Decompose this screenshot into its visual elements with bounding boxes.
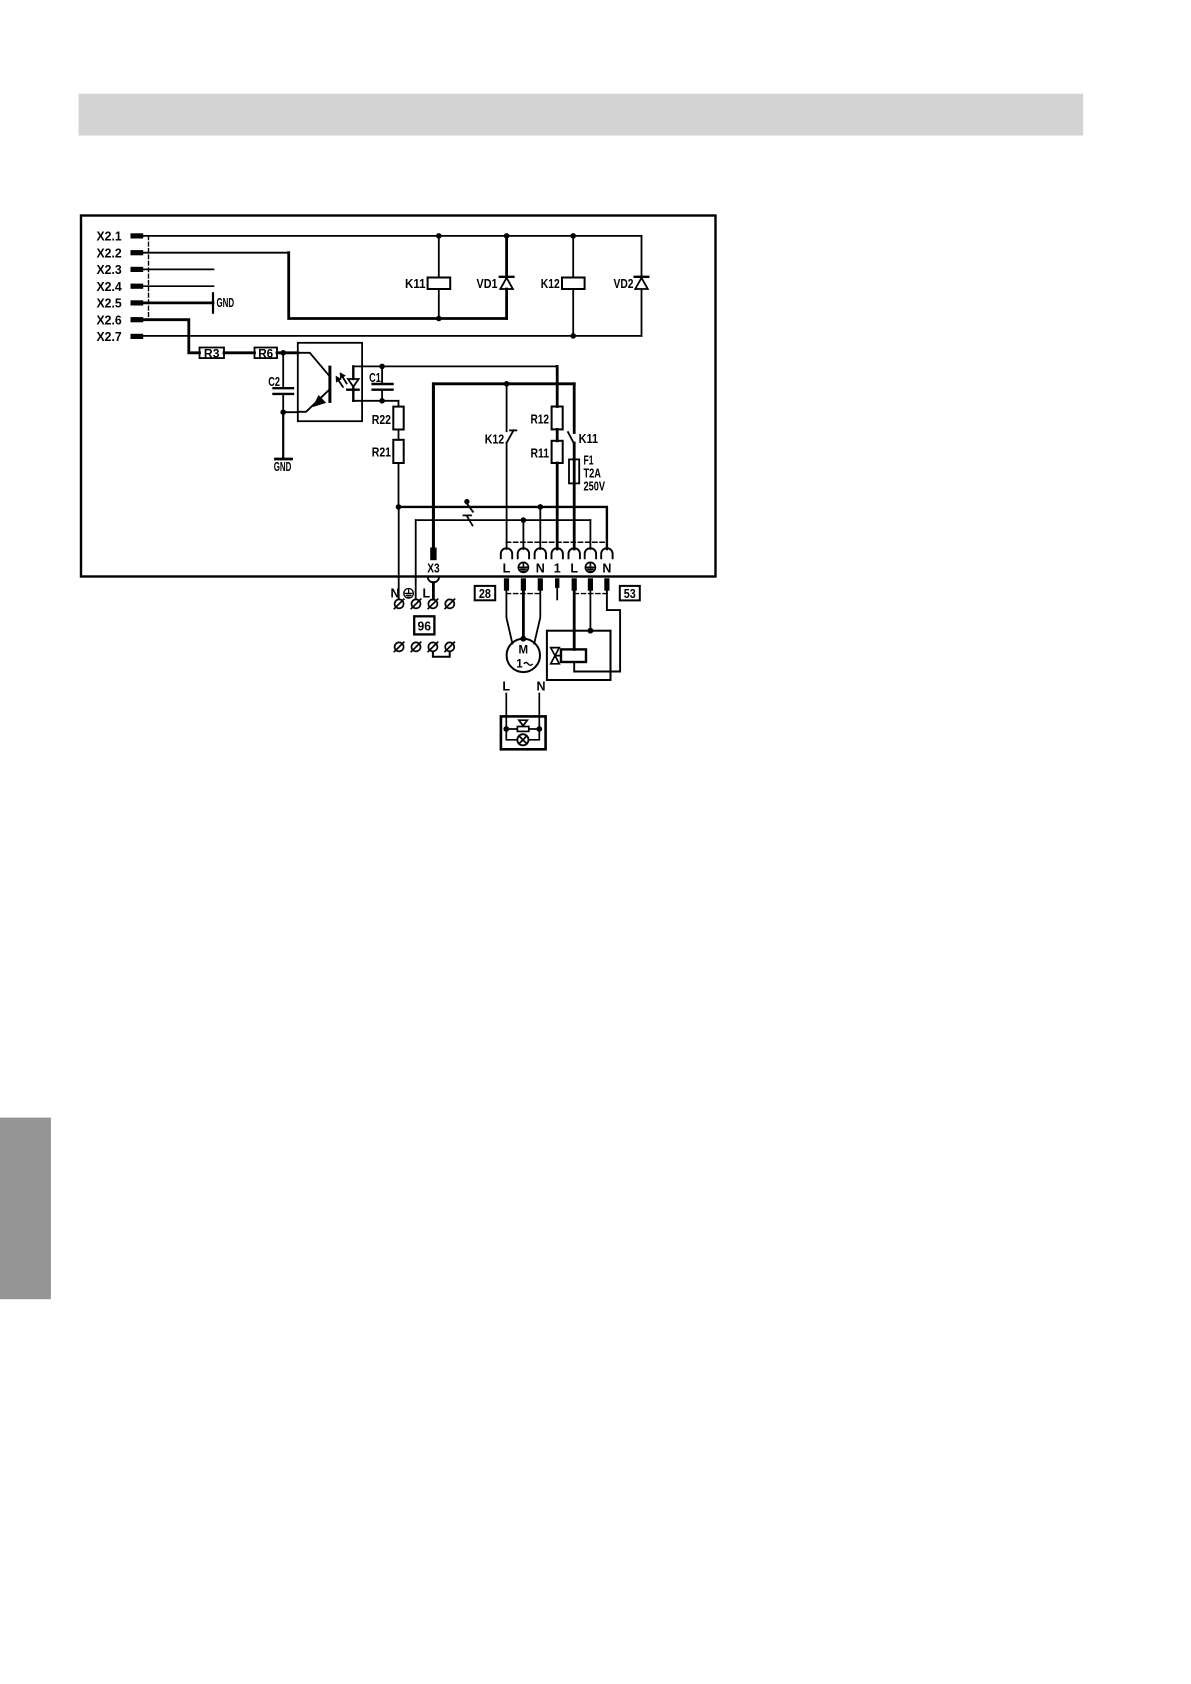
wire R22 to R21 xyxy=(398,430,400,440)
terminal pin 4 with stub xyxy=(555,578,559,588)
ground symbol below C2 xyxy=(276,458,292,461)
wire R12 to R11 xyxy=(556,429,559,440)
connector pin X2.7 xyxy=(131,334,144,339)
node at C2 top xyxy=(280,350,286,356)
wire lamp N lead xyxy=(538,694,540,730)
wire L pin to motor xyxy=(506,591,512,644)
capacitor C2 xyxy=(282,353,284,388)
connector pin X2.2 xyxy=(131,250,144,255)
svg-text:X2.3: X2.3 xyxy=(97,262,122,277)
svg-text:X2.7: X2.7 xyxy=(97,329,122,344)
wire X2.4 stub xyxy=(143,285,213,287)
node K12 switch on L rail xyxy=(504,381,510,387)
fuse F1 xyxy=(569,459,579,483)
node terminal N on neutral rail xyxy=(538,504,544,510)
svg-text:N: N xyxy=(390,586,399,600)
wire X2.3 stub xyxy=(143,268,213,270)
wire N pin to motor xyxy=(534,591,540,644)
terminal pin 1 xyxy=(504,578,509,590)
resistor R12 xyxy=(552,407,563,430)
terminal pin 6 xyxy=(588,578,593,590)
node on valve box top xyxy=(588,628,594,634)
wire L rail to X3 xyxy=(433,384,574,548)
svg-text:VD1: VD1 xyxy=(477,276,498,291)
svg-text:L: L xyxy=(422,586,430,600)
connector pin X2.5 xyxy=(131,300,144,305)
text labels xyxy=(97,229,123,345)
wire X2.2 elbow thick xyxy=(289,253,507,319)
neutral rail wire xyxy=(399,507,607,549)
switch K12 contact xyxy=(506,384,508,431)
ground bar GND X2.5 xyxy=(212,293,214,312)
svg-text:T2A: T2A xyxy=(584,467,602,481)
wire PE pin to motor xyxy=(522,591,525,639)
connector pin X2.6 xyxy=(131,317,144,322)
screw terminal row2 d xyxy=(445,642,454,651)
wire R21 to neutral rail xyxy=(398,463,400,507)
wire valve coil to N terminal 7 xyxy=(574,591,620,672)
node lamp left xyxy=(503,726,509,732)
node on X2.7 rail at K12 xyxy=(570,333,576,339)
sensor element in lamp box xyxy=(517,727,528,732)
screw terminal row2 b xyxy=(412,642,421,651)
mains screw terminal spare xyxy=(445,599,454,608)
mains screw terminal PE xyxy=(412,599,421,608)
svg-text:C1: C1 xyxy=(369,370,381,385)
wire R3 to R6 xyxy=(224,351,255,354)
schematic enclosure box xyxy=(81,216,716,577)
svg-text:X2.5: X2.5 xyxy=(97,296,122,311)
wire emitter node to optocoupler xyxy=(283,411,298,413)
svg-text:R11: R11 xyxy=(531,445,550,460)
svg-text:R22: R22 xyxy=(372,412,391,427)
switch K11 contact xyxy=(573,384,576,433)
wire lamp L lead xyxy=(505,694,507,730)
connector pin X2.1 xyxy=(131,233,144,238)
node lamp right xyxy=(536,726,542,732)
svg-text:K11: K11 xyxy=(405,276,426,291)
svg-text:N: N xyxy=(536,561,545,575)
wire LED bottom to R22 xyxy=(353,401,398,407)
svg-text:K11: K11 xyxy=(579,431,599,446)
dashed terminal strip line xyxy=(506,541,607,543)
wire C2 node to ground xyxy=(282,412,284,459)
dashed group line below pins 5-7 xyxy=(574,593,607,595)
lamp unit box xyxy=(501,716,546,749)
svg-text:L: L xyxy=(502,680,510,694)
motor M circle xyxy=(507,639,540,672)
svg-text:C2: C2 xyxy=(268,374,280,389)
resistor R21 xyxy=(393,440,403,463)
node on top rail at VD1 xyxy=(504,233,510,239)
svg-text:R12: R12 xyxy=(531,412,550,427)
dashed connector bus line xyxy=(148,236,150,320)
diode VD1 xyxy=(505,236,508,319)
lamp wire bar xyxy=(506,728,539,730)
node C1 top xyxy=(379,364,385,370)
terminal socket 1 L xyxy=(501,548,512,558)
wire X3 column xyxy=(432,384,435,548)
mains screw terminal L xyxy=(428,599,437,608)
wire L terminal 5 to valve coil xyxy=(573,591,576,650)
svg-text:1: 1 xyxy=(554,561,561,575)
svg-text:L: L xyxy=(570,561,578,575)
lamp symbol xyxy=(506,729,517,740)
wire X2.7 to K12/VD2 bottom rail xyxy=(143,335,641,337)
capacitor C1 xyxy=(381,366,383,383)
svg-text:L: L xyxy=(503,561,511,575)
svg-text:K12: K12 xyxy=(485,431,505,446)
wire LED top rail to R12 xyxy=(353,365,557,367)
svg-text:R21: R21 xyxy=(372,444,391,459)
svg-text:X3: X3 xyxy=(427,561,439,575)
svg-text:N: N xyxy=(602,561,611,575)
wire earth bus to terminal 6 xyxy=(589,520,591,549)
node on bottom rail at K11 xyxy=(436,316,442,322)
node C1 bottom xyxy=(379,398,385,404)
optocoupler light arrows xyxy=(343,377,347,383)
diode VD2 xyxy=(641,236,643,336)
valve unit box xyxy=(547,631,611,680)
resistor R6 xyxy=(255,348,278,359)
wire neutral rail to terminal 3 xyxy=(539,507,541,549)
PE circle symbol terminal 6 xyxy=(585,562,595,572)
node on top rail at K12 xyxy=(570,233,576,239)
wire R6 to optocoupler xyxy=(277,351,298,354)
label box 53 xyxy=(620,586,640,601)
wire PE terminal 6 to valve box xyxy=(589,591,591,631)
earth bus wire xyxy=(416,519,591,521)
svg-text:X2.4: X2.4 xyxy=(97,279,123,294)
connector X3 xyxy=(430,548,436,561)
screw terminal row2 a xyxy=(395,642,404,651)
wire X3 to L screw xyxy=(432,583,435,600)
header gray bar xyxy=(79,94,1084,136)
terminal socket 7 N xyxy=(601,548,612,558)
resistor R11 xyxy=(552,441,563,463)
resistor R22 xyxy=(393,407,403,430)
node terminal PE on earth bus xyxy=(521,517,527,523)
svg-text:GND: GND xyxy=(217,296,235,310)
svg-text:VD2: VD2 xyxy=(614,276,634,291)
jumper wire row2 xyxy=(433,652,450,657)
svg-text:X2.1: X2.1 xyxy=(97,229,122,244)
terminal socket 6 PE xyxy=(585,548,596,558)
PE circle symbol terminal 2 xyxy=(518,562,528,572)
svg-text:X2.2: X2.2 xyxy=(97,246,122,261)
svg-text:96: 96 xyxy=(418,619,432,633)
screw terminal row2 c xyxy=(428,642,437,651)
svg-text:53: 53 xyxy=(624,587,636,601)
svg-text:250V: 250V xyxy=(584,480,606,494)
terminal socket 5 L xyxy=(569,548,580,558)
wire X2.6 to R3 xyxy=(143,320,199,353)
wire top rail corner to R12 xyxy=(556,366,559,406)
wire X2.1 top rail xyxy=(143,235,641,237)
terminal pin 3 xyxy=(538,578,543,590)
mains screw terminal N xyxy=(395,599,404,608)
enclosure bushing for X3 xyxy=(428,577,439,583)
relay coil K11 xyxy=(438,236,440,319)
relay coil K12 xyxy=(572,236,574,336)
node motor top xyxy=(520,636,526,642)
crossing marker on neutral rail xyxy=(464,499,469,504)
wire X2.2 to relay bottom rail xyxy=(143,252,289,254)
LED D1 inside optocoupler xyxy=(352,366,354,379)
terminal socket 2 PE xyxy=(518,548,529,558)
svg-text:M: M xyxy=(519,644,529,656)
node on top rail at K11 xyxy=(436,233,442,239)
connector pin X2.3 xyxy=(131,267,144,272)
svg-text:X2.6: X2.6 xyxy=(97,313,122,328)
wire neutral to mains N screw xyxy=(398,507,400,599)
valve symbol xyxy=(551,648,560,656)
wire X2.5 to GND xyxy=(143,301,213,304)
svg-text:1: 1 xyxy=(516,658,523,670)
resistor R3 xyxy=(200,348,225,359)
node at C2 bottom / emitter xyxy=(280,409,286,415)
svg-text:K12: K12 xyxy=(541,276,560,291)
valve coil xyxy=(561,649,586,662)
terminal socket 4 "1" xyxy=(552,548,563,558)
terminal socket 3 N xyxy=(535,548,546,558)
wire R11 to terminal 1 xyxy=(556,463,559,549)
svg-text:GND: GND xyxy=(274,460,292,474)
wire earth bus to terminal 2 xyxy=(522,520,524,549)
label box 96 xyxy=(414,616,434,634)
terminal pin 7 xyxy=(604,578,609,590)
PE circle symbol at mains block xyxy=(404,589,414,599)
left gray tab xyxy=(0,1118,51,1300)
node R21 on neutral rail xyxy=(396,504,402,510)
label box 28 xyxy=(475,586,496,600)
transistor Q1 phototransistor xyxy=(298,353,330,376)
connector pin X2.4 xyxy=(131,284,144,289)
svg-text:R6: R6 xyxy=(258,346,273,360)
svg-text:N: N xyxy=(536,680,545,694)
wire earth bus to left PE screw xyxy=(415,520,417,599)
terminal pin 5 xyxy=(572,578,577,590)
crossing marker on earth bus xyxy=(463,514,471,516)
dashed group line below pins 1-3 xyxy=(506,593,540,595)
svg-text:R3: R3 xyxy=(204,346,220,360)
op-amp U1 optocoupler box xyxy=(298,343,362,421)
svg-text:28: 28 xyxy=(479,587,491,601)
terminal pin 2 xyxy=(521,578,526,590)
svg-text:F1: F1 xyxy=(584,454,594,468)
